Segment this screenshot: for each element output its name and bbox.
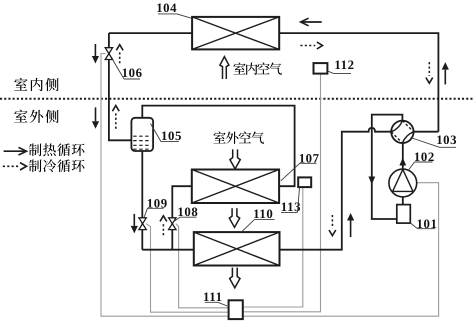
label 111	[203, 290, 229, 307]
svg-text:103: 103	[436, 133, 457, 147]
label 101	[410, 217, 437, 231]
valve 108	[169, 218, 176, 230]
flow arrow (solid) down beside valve106	[92, 44, 99, 64]
heat exchanger 110	[194, 232, 280, 265]
svg-text:112: 112	[334, 58, 354, 72]
svg-text:105: 105	[161, 129, 182, 143]
air flow arrow indoor air up	[220, 57, 229, 79]
flow arrow (dashed) down on right riser	[426, 62, 433, 83]
label 109	[144, 196, 168, 217]
label 106	[113, 60, 143, 81]
flow arrow (dashed) up beside valve108	[160, 216, 167, 235]
valve 109	[139, 218, 146, 230]
wire: controller 111 to valve 109	[146, 224, 229, 313]
flow arrow (solid) up on right riser	[442, 62, 449, 84]
heat exchanger 104	[192, 17, 279, 50]
arrowhead on discharge line	[399, 158, 406, 166]
text label "制冷循环"	[29, 159, 85, 172]
text label "室外侧"	[14, 110, 58, 123]
sensor box 112	[314, 63, 328, 74]
wire: valve106 drop to tank 105	[109, 33, 131, 140]
label 110	[241, 207, 274, 232]
wire: controller 111 to sensor 112	[243, 74, 321, 312]
svg-text:110: 110	[253, 207, 273, 221]
indoor/outdoor separator line	[0, 98, 474, 100]
compressor 102	[389, 169, 417, 197]
sensor box 113	[298, 177, 311, 187]
svg-text:106: 106	[122, 66, 143, 80]
label 103	[411, 133, 458, 147]
wire: controller 111 to sensor 113	[243, 187, 303, 307]
flow arrow (solid) down beside valve109	[131, 214, 138, 234]
valve 106	[105, 48, 112, 60]
arrowhead on suction line	[368, 177, 375, 185]
flow arrow (dashed) right on top pipe	[300, 42, 322, 49]
wire: top pipe HX104 to right riser	[279, 33, 438, 132]
wire: compressor discharge to 4-way valve	[402, 143, 404, 169]
label 107	[281, 151, 320, 181]
wire: HX107 left to valve 108 to bottom header	[172, 186, 192, 250]
label 105	[151, 124, 183, 143]
label 112	[328, 58, 355, 74]
flow arrow (barb) legend heating cycle	[4, 147, 27, 155]
label 102	[408, 150, 435, 171]
wire: tank105 bottom through valve 109	[141, 151, 143, 250]
wire: HX110 right to 4-way valve left port (with crossover hop)	[280, 128, 392, 250]
wire: 4-way valve right port	[414, 131, 439, 133]
sensor box 111	[229, 300, 243, 319]
wire: controller 111 to valve 108	[176, 224, 229, 308]
svg-text:104: 104	[156, 1, 177, 15]
flow arrow (solid) up beside HX110 riser	[347, 213, 354, 237]
wire: tank105 top to HX107 right	[142, 106, 294, 187]
air flow arrow below HX110	[230, 268, 240, 288]
text label "室外空气"	[213, 131, 264, 144]
air flow arrow outdoor air into HX107	[230, 149, 240, 169]
label 113	[281, 188, 301, 215]
accumulator 101	[397, 205, 411, 224]
legend dashed arrow (cooling cycle)	[3, 163, 27, 170]
wire: controller 111 to valve 106 and compressor 102	[101, 54, 439, 317]
flow arrow (dashed) down beside HX110 riser	[329, 215, 336, 236]
wire: top pipe valve106 to HX104	[109, 32, 192, 34]
4-way valve 103	[391, 121, 413, 143]
tank 105 (receiver)	[131, 118, 153, 151]
label 104	[156, 1, 192, 18]
wire: 4-way valve top loop to accumulator 101	[372, 115, 403, 219]
flow arrow (barb) left on top pipe	[301, 18, 322, 26]
wire: bottom header to HX110 left	[142, 249, 194, 251]
text label "室内侧"	[14, 78, 58, 91]
flow arrow (dashed) up beside valve106	[116, 45, 123, 64]
text label "室内空气"	[233, 62, 281, 74]
air flow arrow between HX107 and HX110	[229, 208, 239, 227]
label 108	[175, 205, 199, 221]
heat exchanger 107	[192, 170, 279, 204]
flow arrow (dashed) up below separator left	[112, 106, 119, 129]
text label "制热循环"	[29, 143, 85, 156]
wire: accumulator 101 to compressor suction	[402, 197, 404, 205]
flow arrow (solid) down below separator left	[92, 107, 99, 128]
